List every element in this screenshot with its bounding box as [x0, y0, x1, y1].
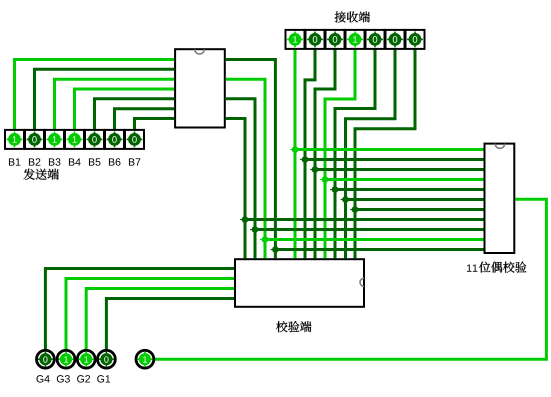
input switch R1 (receive end) value 1: [286, 30, 305, 49]
label B3: [49, 158, 61, 165]
input switch R2 (receive end) value 0: [306, 30, 325, 49]
wire bus branch to U2 pin 9: [255, 228, 484, 231]
input switch R6 (receive end) value 0: [386, 30, 405, 49]
wire U1 output 2 down lane to U3: [226, 79, 265, 258]
wire G2 to U3 left pin 3: [86, 289, 234, 351]
input switch B1 value 1: [5, 130, 24, 149]
label 位偶校验 (bit even parity): [479, 262, 526, 273]
wire U1 output 1 down lane to U3: [226, 60, 276, 259]
wire U1 output 4 down lane to U3: [226, 119, 245, 259]
input switch R3 (receive end) value 0: [326, 30, 345, 49]
junction node at U2 pin 10 branch: [260, 235, 270, 245]
wire R3 jog down to U3: [315, 45, 335, 258]
wire R6 jog down to U3: [346, 45, 396, 258]
input switch R5 (receive end) value 0: [366, 30, 385, 49]
wire bus branch to U2 pin 6: [346, 198, 484, 201]
label G4: [37, 375, 50, 382]
label B4: [69, 158, 81, 165]
wire B4 to U1 pin 4: [75, 89, 175, 133]
wire R4 jog down to U3: [325, 45, 355, 258]
input switch R4 (receive end) value 1: [346, 30, 365, 49]
input switch B3 value 1: [45, 130, 64, 149]
label G2: [77, 375, 90, 382]
wire R2 jog down to U3: [305, 45, 315, 258]
wire B7 to U1 pin 7: [135, 119, 175, 134]
wire bus branch to U2 pin 3: [315, 168, 484, 171]
junction node at U2 pin 5 branch: [330, 185, 340, 195]
wire bus branch to U2 pin 7: [355, 208, 484, 211]
input switch B7 value 0: [125, 130, 144, 149]
label B7: [129, 158, 140, 165]
label B2: [29, 158, 40, 165]
label G1: [97, 375, 110, 382]
label 11 (of 11位偶校验): [467, 264, 477, 271]
junction node at U2 pin 1 branch: [290, 145, 300, 155]
indicator probe G3 value 1: [57, 350, 75, 368]
input switch R7 (receive end) value 0: [406, 30, 425, 49]
wire B6 to U1 pin 6: [115, 109, 175, 134]
junction node at U2 pin 11 branch: [271, 245, 281, 255]
wire bus branch to U2 pin 11: [275, 248, 483, 251]
wire R1 down to U3: [294, 45, 297, 258]
wire bus branch to U2 pin 5: [335, 188, 484, 191]
wire bus branch to U2 pin 4: [325, 178, 484, 181]
indicator probe G2 value 1: [77, 350, 95, 368]
wire B3 to U1 pin 3: [55, 79, 175, 133]
indicator probe G1 value 0: [98, 350, 116, 368]
checker IC U3 (check end): [235, 259, 364, 307]
label 校验端 (check end): [276, 321, 311, 332]
junction node at U2 pin 3 branch: [310, 165, 320, 175]
label B6: [109, 158, 121, 165]
input switch B6 value 0: [105, 130, 124, 149]
input switch B4 value 1: [65, 130, 84, 149]
junction node at U2 pin 9 branch: [250, 225, 260, 235]
junction node at U2 pin 6 branch: [341, 195, 351, 205]
wire U2 parity output to indicator P: [152, 199, 546, 359]
wire U1 output 3 down lane to U3: [226, 99, 255, 259]
indicator probe P (parity error flag) value 1: [136, 350, 154, 368]
label B1: [9, 158, 20, 165]
wire bus branch to U2 pin 10: [265, 238, 484, 241]
label 接收端 (receive end): [335, 11, 370, 22]
input switch B5 value 0: [85, 130, 104, 149]
wire R7 jog down to U3: [355, 45, 415, 258]
label B5: [89, 158, 101, 165]
indicator probe G4 value 0: [37, 350, 55, 368]
wire G3 to U3 left pin 2: [66, 279, 234, 351]
junction node at U2 pin 2 branch: [300, 155, 310, 165]
wire bus branch to U2 pin 2: [305, 158, 484, 161]
wire bus branch to U2 pin 1: [295, 148, 483, 151]
wire R5 jog down to U3: [335, 45, 375, 258]
encoder IC U1 (check-bit generator): [175, 49, 225, 127]
wire G1 to U3 left pin 4: [106, 299, 234, 351]
junction node at U2 pin 4 branch: [320, 175, 330, 185]
wire B2 to U1 pin 2: [35, 69, 175, 133]
wire B5 to U1 pin 5: [95, 99, 175, 134]
junction node at U2 pin 7 branch: [350, 205, 360, 215]
wire G4 to U3 left pin 1: [45, 269, 234, 351]
junction node at U2 pin 8 branch: [240, 215, 250, 225]
label G3: [57, 375, 70, 382]
wire B1 to U1 pin 1: [15, 60, 175, 134]
input switch B2 value 0: [25, 130, 44, 149]
parity checker IC U2 (11-bit even parity): [485, 144, 515, 253]
label 发送端 (send end): [24, 169, 59, 180]
wire bus branch to U2 pin 8: [245, 218, 484, 221]
